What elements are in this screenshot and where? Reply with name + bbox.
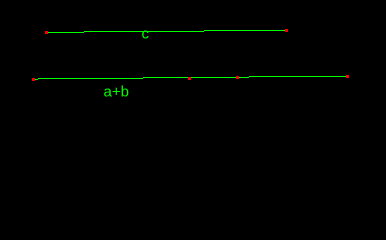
wire run y=30 <box>204 30 285 31</box>
svg-text:c: c <box>142 26 150 43</box>
wire run y=76 <box>249 76 346 77</box>
wire run y=32 <box>48 32 84 33</box>
segment c (top line), drawn as pixel runs <box>48 30 285 33</box>
wire run y=79 <box>34 79 38 80</box>
wire run y=31 <box>84 31 204 32</box>
point marker joining a and b <box>188 77 191 80</box>
point marker on segment b <box>236 76 239 79</box>
wire run y=78 <box>38 78 143 79</box>
point marker left end of segment c <box>45 31 48 34</box>
svg-text:a+b: a+b <box>104 84 129 101</box>
point marker right end of segment c <box>285 29 288 32</box>
wire run y=77 <box>143 77 249 78</box>
point marker right end of segment a+b <box>346 75 349 78</box>
point marker left end of segment a+b <box>32 78 35 81</box>
segment a+b (bottom line), drawn as pixel runs <box>34 76 346 80</box>
